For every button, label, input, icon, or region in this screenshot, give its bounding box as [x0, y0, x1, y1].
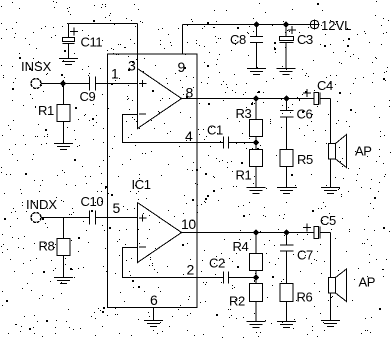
wire feedback op-amp 2 (pin 2) — [123, 248, 224, 278]
wire top-left supply rail — [69, 23, 138, 25]
ground under lower R1 — [247, 188, 266, 194]
wire C10 to op-amp pin 5 input — [96, 217, 138, 219]
svg-text:R5: R5 — [297, 152, 313, 167]
svg-text:C8: C8 — [230, 32, 246, 47]
svg-text:C2: C2 — [209, 256, 225, 271]
node junction R4 top — [253, 230, 259, 236]
svg-text:3: 3 — [128, 58, 136, 74]
svg-text:R1: R1 — [236, 168, 252, 183]
resistor R1 — [38, 84, 70, 144]
ground under speaker 1 — [321, 188, 340, 194]
ground under C8 — [247, 69, 266, 75]
resistor R6 — [280, 284, 312, 322]
svg-text:5: 5 — [113, 200, 121, 216]
svg-text:AP: AP — [359, 275, 376, 290]
capacitor C3 — [280, 25, 313, 69]
ground under speaker 2 — [321, 321, 340, 327]
resistor R4 — [233, 233, 263, 278]
wire speaker 1 to ground — [330, 159, 332, 188]
capacitor C1 — [207, 123, 229, 149]
capacitor C6 — [280, 99, 312, 150]
resistor R2 — [229, 278, 263, 322]
pin 9 label — [178, 59, 186, 75]
pin 4 label — [185, 128, 193, 144]
node junction R3/R1 — [253, 140, 259, 146]
svg-text:R1: R1 — [38, 103, 54, 118]
wire C5 to speaker — [330, 233, 332, 278]
resistor R3 — [236, 99, 263, 143]
ground under C3 — [277, 69, 296, 75]
resistor R1 (feedback lower) — [236, 143, 263, 188]
wire INDX to C10 — [41, 217, 90, 219]
capacitor C8 — [230, 25, 263, 69]
terminal 12VL — [310, 18, 352, 33]
capacitor C2 — [209, 256, 229, 284]
resistor R5 — [280, 150, 313, 188]
svg-text:C3: C3 — [297, 32, 313, 47]
node junction R3 top — [253, 96, 259, 102]
wire C1 to divider junction — [229, 142, 257, 144]
node junction C7 top — [284, 230, 290, 236]
wire INSX to C9 — [41, 83, 90, 85]
pin 2 label — [187, 262, 195, 278]
svg-text:INDX: INDX — [26, 197, 57, 212]
ground under R1 — [54, 144, 73, 150]
op-amp U1B triangle — [138, 203, 182, 263]
svg-text:8: 8 — [186, 85, 194, 101]
wire speaker 2 to ground — [330, 293, 332, 321]
pin 1 label — [111, 66, 119, 82]
wire pin 3 drop to op-amp — [137, 24, 139, 69]
node junction R4/R2 — [253, 275, 259, 281]
wire C9 to op-amp pin 1 input — [96, 83, 138, 85]
svg-text:R3: R3 — [236, 106, 252, 121]
speaker AP (bottom) — [329, 269, 376, 302]
svg-text:9: 9 — [178, 59, 186, 75]
svg-text:R4: R4 — [233, 239, 249, 254]
ground under R5 — [277, 188, 296, 194]
node junction at R1 — [60, 81, 66, 87]
ground under R2 — [247, 322, 266, 328]
wire feedback op-amp 1 (pin 4) — [123, 115, 224, 143]
capacitor C10 — [81, 194, 104, 225]
node junction C6 top — [284, 96, 290, 102]
capacitor C5 — [303, 213, 336, 239]
svg-text:R2: R2 — [229, 294, 245, 309]
svg-text:INSX: INSX — [21, 59, 52, 74]
svg-text:1: 1 — [111, 66, 119, 82]
svg-text:C10: C10 — [81, 194, 104, 209]
pin 6 label — [150, 292, 158, 308]
wire pin 9 drop to IC — [182, 25, 184, 55]
op-amp U1A triangle — [138, 69, 182, 129]
wire pin 6 to ground — [153, 308, 155, 321]
wire top-right supply rail to 12VL — [183, 24, 310, 26]
wire op-amp 2 output (pin 10) — [182, 232, 315, 234]
wire C2 to divider junction — [229, 277, 257, 279]
svg-text:10: 10 — [181, 216, 196, 232]
ground under R8 — [54, 278, 73, 284]
pin 3 label — [128, 58, 136, 74]
svg-text:R8: R8 — [39, 239, 55, 254]
svg-text:C4: C4 — [317, 78, 333, 93]
svg-text:C5: C5 — [320, 213, 336, 228]
pin 5 label — [113, 200, 121, 216]
input terminal INDX — [26, 197, 57, 223]
node junction C8 on rail — [254, 22, 260, 28]
node junction C3 on rail — [283, 22, 289, 28]
svg-text:C6: C6 — [297, 107, 313, 122]
ground under C11 — [59, 59, 78, 65]
op-amp IC1 package box — [108, 54, 198, 308]
ground under R6 — [277, 322, 296, 328]
svg-text:AP: AP — [355, 144, 372, 159]
svg-text:6: 6 — [150, 292, 158, 308]
capacitor C4 — [303, 78, 333, 105]
pin 8 label — [186, 85, 194, 101]
svg-text:R6: R6 — [297, 290, 313, 305]
resistor R8 — [39, 218, 71, 278]
input terminal INSX — [21, 59, 52, 89]
svg-text:C9: C9 — [80, 89, 96, 104]
svg-text:C7: C7 — [297, 248, 313, 263]
speaker AP (top) — [329, 135, 372, 168]
ground under pin 6 — [144, 321, 163, 327]
svg-text:12VL: 12VL — [321, 18, 351, 33]
pin 10 label — [181, 216, 196, 232]
wire C4 to speaker — [330, 99, 332, 144]
svg-text:IC1: IC1 — [132, 177, 151, 192]
svg-text:C11: C11 — [81, 35, 103, 50]
capacitor C11 — [63, 24, 103, 59]
svg-text:4: 4 — [185, 128, 193, 144]
capacitor C9 — [80, 77, 96, 105]
wire op-amp 1 output (pin 8) — [182, 98, 315, 100]
svg-text:C1: C1 — [207, 123, 223, 138]
svg-text:2: 2 — [187, 262, 195, 278]
capacitor C7 — [280, 233, 313, 284]
